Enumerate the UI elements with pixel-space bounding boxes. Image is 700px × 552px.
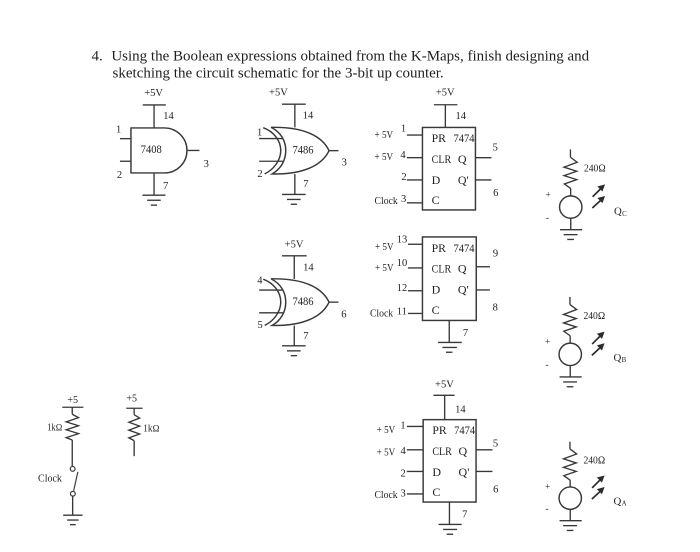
svg-text:9: 9 [493, 249, 498, 260]
xor-gate U4 input back arc [263, 279, 281, 325]
svg-text:7: 7 [163, 181, 168, 192]
svg-text:sketching the circuit schemati: sketching the circuit schematic for the … [113, 66, 444, 82]
svg-text:5: 5 [493, 142, 498, 153]
svg-text:6: 6 [493, 484, 498, 495]
wire resistor top (Qb) [569, 297, 571, 305]
ground (switch) [63, 515, 82, 525]
svg-text:-: - [546, 213, 549, 223]
svg-text:7486: 7486 [293, 142, 314, 156]
svg-text:Clock: Clock [370, 309, 394, 320]
svg-text:1: 1 [401, 124, 406, 135]
svg-text:C: C [432, 485, 440, 499]
svg-text:PR: PR [432, 423, 446, 437]
wire resistor to switch [71, 440, 73, 466]
svg-text:+ 5V: + 5V [375, 263, 394, 274]
ground (U6) [439, 524, 462, 534]
resistor R3 1kohm [66, 414, 78, 440]
ground (7408) [142, 195, 165, 205]
wire pin 2 (7408) [120, 160, 131, 162]
wire pin 5 (xor2) [259, 312, 283, 314]
svg-text:Q: Q [614, 352, 622, 364]
power rail (xor1) [282, 103, 306, 105]
wire resistor to LED (Qc) [570, 188, 572, 195]
wire resistor top (Qc) [569, 149, 571, 157]
svg-text:6: 6 [493, 188, 498, 199]
wire switch to ground [72, 496, 74, 515]
svg-text:CLR: CLR [432, 444, 452, 458]
resistor R1 240ohm (Qc) [564, 157, 577, 188]
power rail (clock pullup) [62, 406, 83, 408]
svg-text:C: C [432, 193, 440, 207]
wire below resistor (R4) [133, 441, 135, 457]
svg-text:3: 3 [204, 159, 209, 170]
wire pin 7 (xor1) [294, 174, 296, 194]
svg-text:D: D [432, 283, 441, 297]
svg-text:+5: +5 [67, 395, 78, 406]
wire pin 12 (U5) [408, 290, 423, 292]
svg-text:D: D [432, 173, 441, 187]
svg-text:A: A [622, 501, 627, 508]
svg-text:7474: 7474 [454, 423, 475, 437]
switch SW1 bottom contact [70, 491, 75, 496]
svg-text:+5V: +5V [144, 88, 163, 99]
svg-text:Q': Q' [459, 465, 470, 479]
power rail (xor2) [282, 255, 307, 257]
svg-text:3: 3 [401, 194, 406, 205]
svg-text:+: + [545, 482, 550, 492]
svg-text:12: 12 [397, 283, 408, 294]
svg-text:-: - [545, 361, 548, 371]
wire pin 7 (xor2) [293, 326, 295, 346]
svg-text:5: 5 [493, 439, 498, 450]
wire resistor to LED (Qa) [569, 480, 571, 487]
ground (Qc) [560, 230, 582, 240]
svg-text:1: 1 [257, 127, 262, 138]
Qb net label [614, 352, 627, 364]
svg-text:PR: PR [432, 131, 446, 145]
svg-text:3: 3 [401, 489, 406, 500]
wire pin 13 (U5) [408, 243, 423, 245]
svg-text:7: 7 [303, 331, 308, 342]
wire pin 7 (U6) [448, 502, 450, 524]
svg-text:2: 2 [401, 468, 406, 479]
svg-text:Q': Q' [458, 173, 469, 187]
svg-text:CLR: CLR [432, 152, 452, 166]
LED arrow 2 (Qa) [592, 487, 605, 499]
svg-text:+ 5V: + 5V [375, 130, 394, 141]
svg-text:+5V: +5V [269, 88, 288, 99]
svg-text:5: 5 [258, 320, 263, 331]
wire pin 2 (U3) [407, 179, 423, 181]
wire pin 3 (U6) [407, 493, 423, 495]
wire pin 1 (U3) [407, 134, 423, 136]
svg-text:B: B [622, 357, 627, 364]
svg-text:CLR: CLR [432, 262, 452, 276]
svg-text:14: 14 [456, 111, 467, 122]
svg-text:14: 14 [303, 111, 314, 122]
wire pin 4 (U6) [407, 449, 423, 451]
svg-text:10: 10 [397, 258, 408, 269]
svg-text:Q: Q [459, 444, 468, 458]
ground (xor2) [282, 346, 306, 356]
resistor R2 240ohm (Qb) [564, 305, 577, 336]
svg-text:7474: 7474 [453, 131, 474, 145]
svg-text:2: 2 [257, 169, 262, 180]
wire pin14 (xor2) [293, 256, 295, 279]
svg-text:-: - [545, 504, 548, 514]
ground (Qb) [560, 377, 582, 387]
wire resistor to LED (Qb) [569, 336, 571, 343]
and-gate U1 body [131, 128, 187, 173]
wire pin14 (U3) [444, 105, 446, 128]
svg-text:+5: +5 [126, 394, 137, 405]
xor-gate U2 body [271, 127, 329, 174]
svg-text:1kΩ: 1kΩ [47, 422, 62, 433]
svg-text:Clock: Clock [38, 474, 62, 485]
svg-text:D: D [432, 465, 441, 479]
svg-text:C: C [622, 211, 627, 218]
wire pin 6 output (xor2) [329, 301, 338, 303]
wire LED to ground (Qa) [569, 509, 571, 520]
Qa net label [614, 496, 627, 508]
wire pin 2 (U6) [407, 470, 423, 472]
xor-gate U4 body [271, 279, 329, 326]
wire pin14 (7408) [153, 105, 155, 128]
svg-text:+: + [545, 190, 550, 200]
svg-text:Using the Boolean expressions: Using the Boolean expressions obtained f… [111, 49, 589, 65]
resistor R5 240ohm (Qa) [564, 449, 577, 480]
wire pin 1 (xor1) [259, 138, 283, 140]
wire pin 10 (U5) [408, 267, 423, 269]
LED D3 circle (Qa) [559, 487, 581, 509]
wire pin 6 Q' (U3) [475, 179, 491, 181]
svg-text:7486: 7486 [293, 294, 314, 308]
svg-text:+: + [545, 338, 550, 348]
flip-flop U6 box [423, 420, 476, 502]
wire pin 3 output (7408) [187, 149, 200, 151]
Qc net label [614, 206, 627, 218]
wire pin 6 Q' (U6) [476, 470, 492, 472]
svg-text:7408: 7408 [141, 142, 162, 156]
wire pin 3 output (xor1) [329, 150, 338, 152]
svg-text:Q: Q [458, 152, 467, 166]
svg-text:4: 4 [401, 446, 407, 457]
svg-text:Q': Q' [458, 283, 469, 297]
svg-text:Clock: Clock [375, 196, 399, 207]
svg-text:7: 7 [303, 179, 308, 190]
svg-text:+5V: +5V [436, 88, 455, 99]
wire pin14 (xor1) [294, 104, 296, 127]
title line 1 [91, 49, 589, 65]
flip-flop U5 box [422, 237, 476, 321]
svg-text:14: 14 [303, 263, 314, 274]
svg-text:PR: PR [432, 241, 446, 255]
xor-gate U2 input back arc [263, 128, 281, 174]
LED arrow 1 (Qb) [592, 332, 604, 344]
wire pin 8 Q' (U5) [476, 289, 490, 291]
LED arrow 1 (Qa) [592, 475, 604, 487]
svg-text:+ 5V: + 5V [377, 425, 396, 436]
svg-text:1: 1 [116, 124, 121, 135]
svg-text:2: 2 [117, 170, 122, 181]
wire pin 4 (U3) [407, 157, 423, 159]
wire pin 1 (U6) [407, 425, 423, 427]
wire pin 7 (U5) [448, 320, 450, 342]
svg-text:Q: Q [614, 206, 622, 218]
wire LED to ground (Qb) [569, 366, 571, 377]
svg-text:+5V: +5V [285, 240, 304, 251]
wire pin 9 Q (U5) [476, 266, 490, 268]
svg-text:+ 5V: + 5V [377, 448, 396, 459]
flip-flop U3 box [422, 127, 475, 210]
svg-text:14: 14 [455, 404, 466, 415]
svg-text:7: 7 [462, 509, 467, 520]
svg-text:6: 6 [341, 310, 346, 321]
switch SW1 blade [74, 472, 78, 491]
svg-text:+ 5V: + 5V [375, 242, 394, 253]
svg-text:14: 14 [163, 111, 174, 122]
svg-text:7: 7 [463, 328, 468, 339]
svg-text:Q: Q [458, 262, 467, 276]
svg-text:3: 3 [342, 158, 347, 169]
svg-text:240Ω: 240Ω [584, 164, 606, 175]
power rail (7408) [143, 104, 166, 106]
wire rail to resistor (clock pullup) [71, 407, 73, 414]
resistor R4 1kohm [129, 415, 140, 441]
wire resistor top (Qa) [569, 442, 571, 449]
svg-text:7474: 7474 [453, 241, 474, 255]
power rail (R4) [126, 407, 142, 409]
power rail (U3) [434, 104, 458, 106]
wire pin 1 (7408) [120, 138, 131, 140]
wire pin 5 Q (U3) [475, 157, 491, 159]
wire pin 5 Q (U6) [476, 449, 492, 451]
svg-text:2: 2 [401, 172, 406, 183]
LED D1 circle (Qc) [560, 196, 582, 218]
svg-text:C: C [432, 303, 440, 317]
wire LED to ground (Qc) [570, 218, 572, 229]
wire pin14 (U6) [444, 395, 446, 419]
wire rail to resistor (R4) [133, 408, 135, 414]
svg-text:Clock: Clock [374, 490, 398, 501]
LED arrow 2 (Qc) [592, 196, 605, 208]
ground (xor1) [282, 194, 306, 204]
wire pin 4 (xor2) [259, 289, 283, 291]
wire pin 7 (7408) [153, 173, 155, 195]
svg-text:240Ω: 240Ω [583, 455, 605, 466]
svg-text:Q: Q [614, 496, 622, 508]
ground (Qa) [560, 521, 582, 531]
LED arrow 2 (Qb) [592, 343, 605, 355]
LED D2 circle (Qb) [559, 343, 581, 365]
power rail (U6) [433, 394, 454, 396]
svg-text:1kΩ: 1kΩ [143, 424, 160, 435]
LED arrow 1 (Qc) [593, 184, 605, 196]
svg-text:4: 4 [257, 275, 263, 286]
svg-text:13: 13 [397, 234, 408, 245]
switch SW1 top contact [70, 466, 75, 471]
wire pin 11 (U5) [408, 312, 423, 314]
wire pin 3 (U3) [407, 202, 423, 204]
svg-text:+5V: +5V [435, 380, 454, 391]
svg-text:240Ω: 240Ω [583, 311, 605, 322]
svg-text:8: 8 [493, 302, 498, 313]
svg-text:11: 11 [397, 307, 407, 318]
ground (U5) [438, 342, 462, 352]
svg-text:4.: 4. [91, 49, 102, 65]
svg-text:1: 1 [400, 420, 405, 431]
wire pin 2 (xor1) [259, 160, 283, 162]
svg-text:+ 5V: + 5V [375, 152, 394, 163]
svg-text:4: 4 [400, 150, 406, 161]
